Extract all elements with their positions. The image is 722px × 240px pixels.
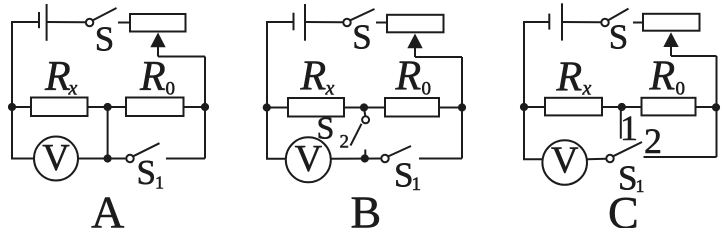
- wire A wiper to right branch: [158, 56, 205, 58]
- rheostat A wiper arrow shaft: [157, 44, 159, 57]
- svg-text:R: R: [300, 54, 327, 100]
- battery B long plate: [304, 4, 306, 41]
- switch S2 blade (B): [351, 124, 362, 146]
- wire C middle left segment: [524, 106, 545, 108]
- svg-text:1: 1: [155, 173, 164, 193]
- svg-text:S: S: [352, 18, 371, 57]
- resistor Rx (C): [545, 98, 602, 116]
- svg-text:A: A: [91, 187, 124, 229]
- wire A right vertical: [204, 57, 206, 159]
- switch S1 pivot (B): [381, 155, 388, 162]
- svg-text:R: R: [556, 55, 583, 101]
- node B right (junction dot): [458, 103, 466, 111]
- resistor R0 (A): [126, 98, 184, 117]
- wire C battery to switch S: [562, 21, 601, 23]
- wire B S2 lower stub: [364, 150, 366, 159]
- rheostat B body: [387, 15, 444, 33]
- svg-text:V: V: [295, 138, 323, 180]
- battery C long plate: [561, 3, 563, 40]
- svg-text:S: S: [609, 18, 628, 57]
- svg-text:1: 1: [620, 108, 638, 148]
- wire C R0 to right node: [696, 106, 717, 108]
- svg-text:R: R: [44, 54, 71, 100]
- battery A long plate: [46, 4, 48, 41]
- svg-text:x: x: [325, 78, 335, 100]
- switch S1 blade (B): [388, 146, 411, 156]
- svg-text:V: V: [551, 140, 579, 182]
- wire A between Rx and R0: [88, 106, 127, 108]
- switch S blade (C): [608, 9, 628, 21]
- battery C short plate: [548, 14, 550, 30]
- node B left (junction dot): [263, 103, 271, 111]
- wire A switch to rheostat: [118, 22, 130, 24]
- resistor R0 (B): [385, 98, 439, 117]
- svg-text:x: x: [582, 78, 592, 100]
- svg-text:0: 0: [676, 79, 686, 100]
- wire C switch to rheostat: [633, 22, 643, 24]
- rheostat B wiper arrow shaft: [414, 45, 416, 57]
- rheostat C body: [643, 14, 700, 31]
- wire C voltmeter to S1: [587, 158, 606, 160]
- wire A battery to switch S: [47, 21, 86, 23]
- resistor R0 (C): [642, 98, 696, 116]
- wire B node to S2 pivot: [364, 108, 365, 117]
- node B middle (junction dot): [360, 103, 368, 111]
- wire C right vertical: [716, 56, 718, 157]
- svg-text:0: 0: [422, 79, 432, 100]
- rheostat A body: [130, 14, 186, 32]
- battery B short plate: [293, 13, 295, 31]
- switch S2 pivot (B): [362, 116, 369, 123]
- wire A middle vertical: [107, 107, 109, 159]
- voltmeter V (C): [542, 140, 587, 185]
- rheostat C wiper arrowhead: [663, 32, 678, 47]
- switch S pivot (A): [86, 19, 93, 26]
- svg-text:2: 2: [644, 121, 662, 161]
- switch S pivot (B): [343, 19, 350, 26]
- wire B middle left segment: [267, 107, 288, 109]
- wire B R0 to right node: [439, 107, 462, 109]
- svg-text:C: C: [608, 187, 639, 228]
- node A right (junction dot): [201, 103, 209, 111]
- svg-text:S: S: [95, 20, 114, 59]
- wire B switch to rheostat: [376, 22, 387, 24]
- svg-text:V: V: [42, 137, 70, 179]
- wire A R0 to right node: [184, 106, 206, 108]
- wire C wiper to right branch: [671, 55, 717, 57]
- resistor Rx (A): [31, 98, 88, 117]
- node B bottom (junction dot): [361, 154, 369, 162]
- switch S1 pivot (A): [126, 155, 133, 162]
- wire C bottom right (contact 2 wire): [644, 156, 717, 158]
- switch S blade (B): [350, 9, 374, 20]
- svg-text:x: x: [68, 78, 78, 100]
- svg-text:R: R: [395, 54, 422, 100]
- switch S1 blade (C): [613, 142, 642, 156]
- rheostat A wiper arrowhead: [150, 33, 165, 48]
- node C left (junction dot): [520, 103, 528, 111]
- node A bottom (junction dot): [104, 154, 112, 162]
- resistor Rx (B): [288, 98, 344, 117]
- wire B left branch: [267, 22, 293, 159]
- svg-text:2: 2: [340, 132, 350, 153]
- battery A short plate: [38, 12, 40, 28]
- wire C contact 1 stub: [620, 107, 622, 139]
- wire B wiper to right branch: [415, 56, 462, 58]
- rheostat C wiper arrow shaft: [670, 44, 672, 56]
- wire B battery to switch S: [305, 21, 343, 23]
- wire A middle left segment: [12, 106, 31, 108]
- svg-text:0: 0: [166, 79, 176, 100]
- wire B right vertical: [461, 57, 463, 159]
- wire B voltmeter to S1: [331, 158, 381, 160]
- wire A left branch (top-left, left vertical, bottom-left): [12, 22, 39, 159]
- switch S blade (A): [93, 8, 117, 20]
- wire B S1 to right corner: [419, 158, 462, 160]
- node A left (junction dot): [8, 103, 16, 111]
- svg-text:R: R: [649, 54, 676, 100]
- wire A S1 to right corner: [166, 158, 205, 160]
- voltmeter V (A): [34, 137, 78, 181]
- svg-text:B: B: [350, 187, 381, 229]
- svg-text:1: 1: [412, 174, 422, 195]
- svg-text:R: R: [139, 54, 166, 100]
- node C right (junction dot): [712, 103, 720, 111]
- node A middle (junction dot): [104, 103, 112, 111]
- switch S1 blade (A): [133, 143, 159, 156]
- wire B between Rx and R0: [344, 107, 385, 109]
- voltmeter V (B): [286, 137, 331, 182]
- switch S pivot (C): [601, 19, 608, 26]
- wire C between Rx and R0: [602, 106, 642, 108]
- switch S1 pivot (C): [606, 155, 613, 162]
- wire C left branch: [524, 22, 549, 159]
- wire A voltmeter to S1: [78, 158, 126, 160]
- svg-text:S: S: [137, 153, 156, 192]
- rheostat B wiper arrowhead: [407, 34, 422, 49]
- node C middle (junction dot): [618, 103, 626, 111]
